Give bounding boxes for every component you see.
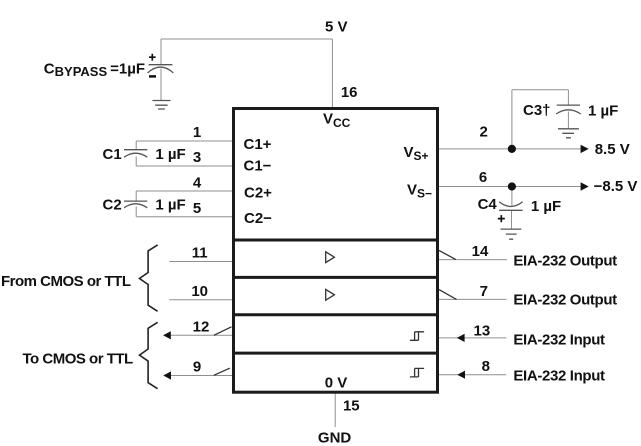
svg-text:10: 10: [191, 283, 208, 300]
svg-text:EIA-232 Output: EIA-232 Output: [513, 253, 617, 270]
svg-text:0 V: 0 V: [325, 375, 348, 392]
svg-text:C2: C2: [103, 197, 122, 214]
svg-text:From CMOS or TTL: From CMOS or TTL: [1, 273, 131, 290]
svg-text:1 µF: 1 µF: [155, 146, 185, 163]
svg-text:5 V: 5 V: [325, 19, 348, 36]
svg-text:C2+: C2+: [244, 184, 272, 201]
svg-text:1 µF: 1 µF: [531, 198, 561, 215]
svg-text:8.5 V: 8.5 V: [595, 141, 630, 158]
svg-text:11: 11: [192, 245, 208, 262]
svg-text:2: 2: [480, 124, 488, 141]
svg-text:1 µF: 1 µF: [155, 197, 185, 214]
svg-text:9: 9: [193, 359, 201, 376]
svg-text:1: 1: [193, 124, 201, 141]
svg-text:1 µF: 1 µF: [588, 103, 618, 120]
svg-text:5: 5: [193, 200, 201, 217]
svg-text:C1+: C1+: [244, 136, 272, 153]
svg-text:C2−: C2−: [244, 210, 272, 227]
svg-text:7: 7: [480, 283, 488, 300]
svg-text:6: 6: [479, 169, 487, 186]
svg-text:12: 12: [193, 318, 210, 335]
svg-text:C1−: C1−: [244, 158, 272, 175]
svg-text:−8.5 V: −8.5 V: [594, 178, 638, 195]
svg-text:15: 15: [343, 398, 360, 415]
svg-text:C3†: C3†: [523, 102, 551, 119]
svg-text:EIA-232 Input: EIA-232 Input: [513, 331, 605, 348]
svg-text:EIA-232 Input: EIA-232 Input: [513, 368, 605, 385]
svg-text:16: 16: [341, 84, 358, 101]
svg-text:3: 3: [193, 149, 201, 166]
svg-text:C4: C4: [478, 196, 498, 213]
svg-text:14: 14: [472, 243, 489, 260]
svg-text:CBYPASS =1µF: CBYPASS =1µF: [44, 61, 145, 80]
svg-text:To CMOS or TTL: To CMOS or TTL: [23, 351, 134, 368]
svg-text:13: 13: [474, 322, 491, 339]
svg-text:4: 4: [193, 174, 202, 191]
svg-text:C1: C1: [103, 146, 122, 163]
svg-text:8: 8: [482, 358, 490, 375]
svg-text:EIA-232 Output: EIA-232 Output: [513, 291, 617, 308]
svg-text:GND: GND: [318, 429, 352, 446]
